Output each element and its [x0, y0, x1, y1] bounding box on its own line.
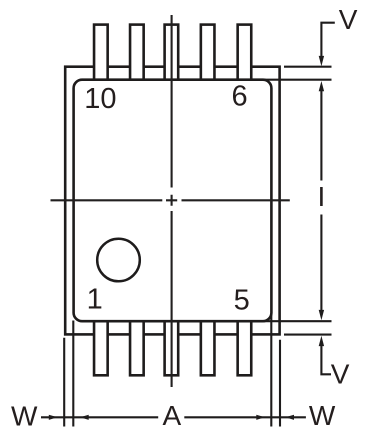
dimension V (top): leader from label down to outer top edge — [321, 23, 334, 58]
lead L8 (top row, center) — [165, 25, 179, 83]
extension line: body left edge extended down — [72, 321, 74, 427]
svg-text:W: W — [309, 400, 336, 431]
svg-text:1: 1 — [87, 284, 103, 316]
svg-text:V: V — [339, 4, 358, 35]
dimension A line (right segment) — [184, 416, 306, 418]
extension line: body right edge extended down — [270, 314, 272, 427]
extension line: outer outline left edge extended down — [63, 338, 65, 427]
arrowhead pointing down at outer top edge — [319, 56, 324, 66]
extension line: body bottom edge extended right — [263, 320, 332, 322]
horizontal centerline — [51, 199, 290, 201]
lead L2 (bottom row) — [130, 319, 144, 375]
arrowhead pointing left at left W gap — [80, 415, 89, 420]
dimension V (bottom): leader from outer bottom edge down to label — [321, 342, 331, 375]
arrowhead pointing up at body top edge — [319, 81, 324, 91]
lead L7 (top row) — [201, 25, 215, 83]
pin-1 index circle — [97, 239, 140, 282]
arrowhead pointing left at right W gap — [285, 415, 294, 420]
dimension A line (left segment) — [41, 416, 158, 418]
svg-text:W: W — [11, 400, 38, 431]
lead L5 (bottom row, pin 5 position) — [238, 319, 252, 375]
extension line: body top edge extended right — [263, 79, 332, 81]
arrowhead pointing right at left W gap — [49, 415, 58, 420]
extension line: outer outline bottom edge extended right — [284, 334, 332, 336]
lead L4 (bottom row) — [201, 319, 215, 375]
arrowhead pointing up at outer bottom edge — [319, 336, 324, 346]
lead L3 (bottom row, center) — [165, 319, 179, 375]
svg-text:A: A — [163, 400, 182, 431]
lead L1 (bottom row, pin 1 position) — [94, 319, 108, 375]
extension line: outer outline right edge extended down — [279, 340, 281, 427]
lead L6 (top row, pin 6 position) — [238, 25, 252, 83]
svg-text:10: 10 — [84, 83, 116, 115]
vertical centerline — [171, 15, 173, 387]
svg-text:5: 5 — [234, 285, 250, 317]
outer lead-tip outline rectangle — [65, 67, 279, 335]
lead L9 (top row) — [130, 25, 144, 83]
arrowhead pointing right at right W gap — [256, 415, 265, 420]
svg-text:6: 6 — [232, 81, 248, 113]
svg-text:I: I — [318, 181, 326, 212]
extension line: outer outline top edge extended right — [284, 66, 332, 68]
arrowhead pointing down at body bottom edge — [319, 310, 324, 320]
svg-text:V: V — [331, 358, 350, 389]
dimension I line (body height) with gap for label — [320, 88, 322, 315]
package body outline (rounded rectangle) — [74, 80, 272, 322]
lead L10 (top row, pin 10 position) — [94, 25, 108, 83]
